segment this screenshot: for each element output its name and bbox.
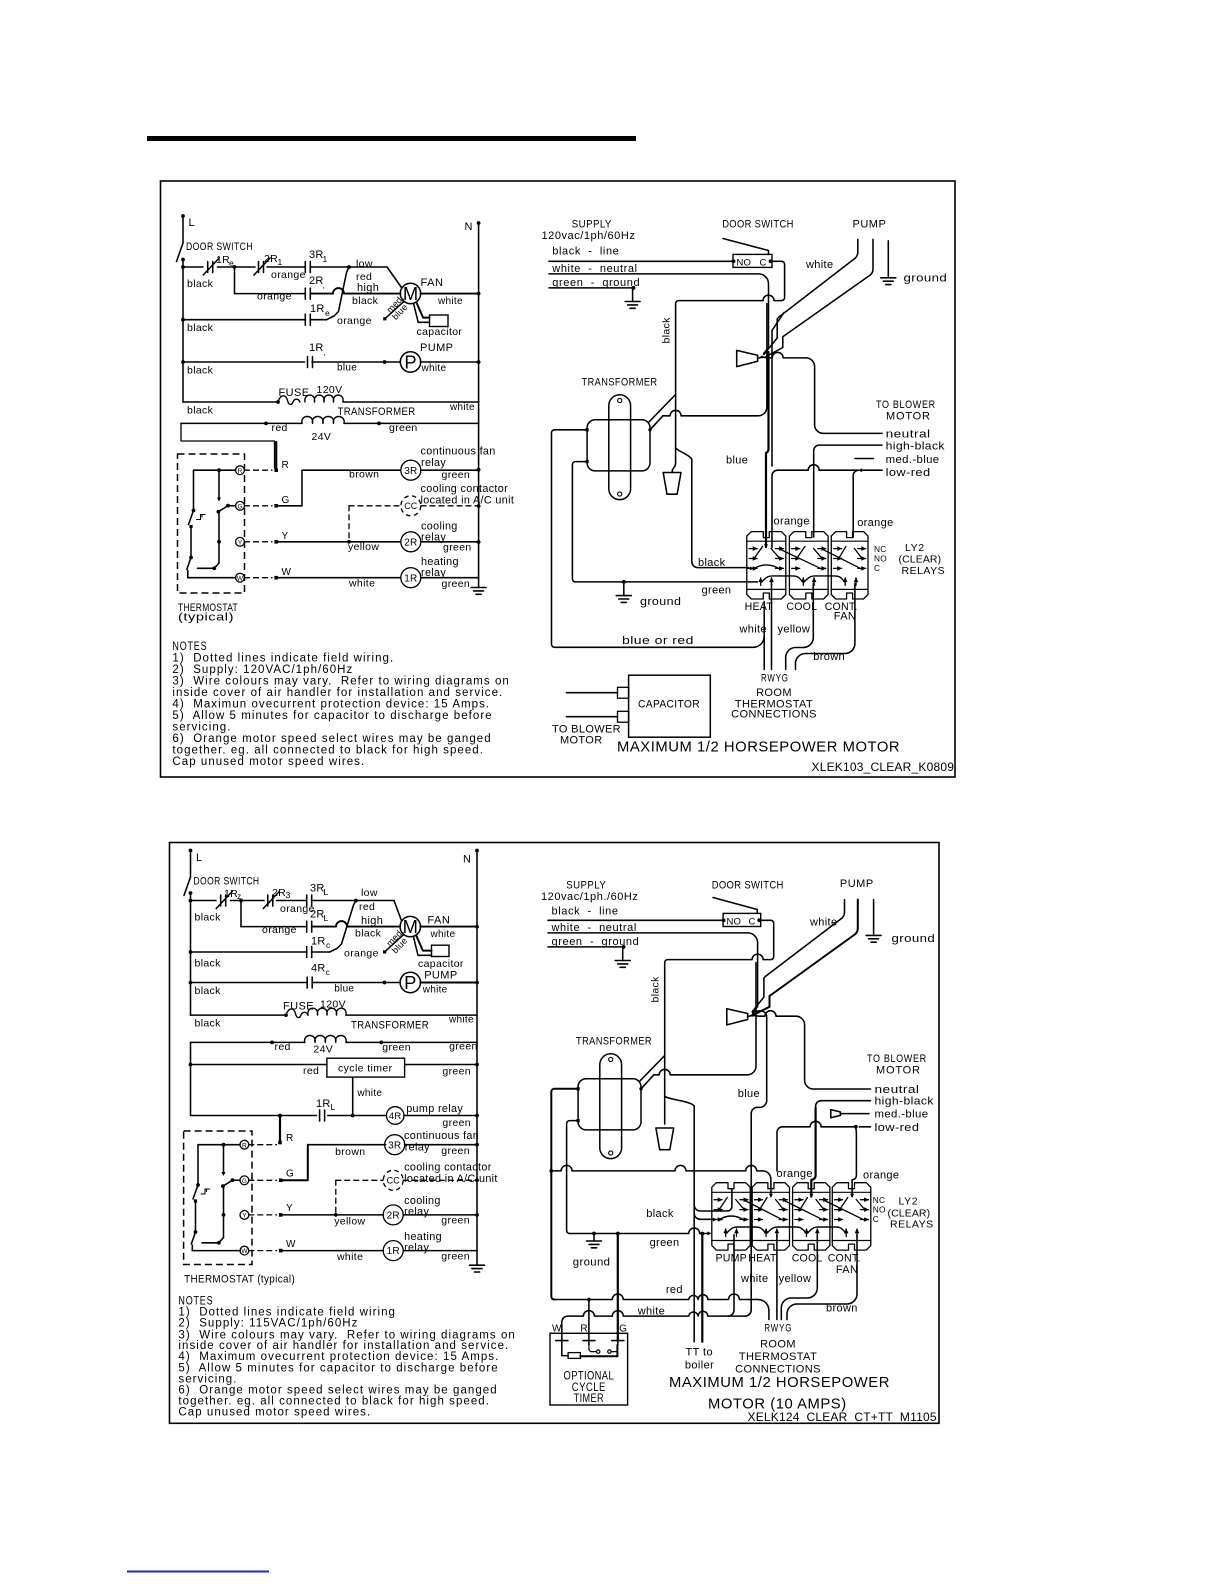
svg-text:brown: brown — [813, 651, 845, 663]
transformer primary diag top d1 — [649, 395, 675, 422]
contact 1Rz d2 — [220, 895, 222, 906]
fuse F1 — [278, 396, 300, 405]
relay HEAT arms — [755, 546, 763, 558]
svg-text:1R: 1R — [311, 936, 326, 948]
wire white row d2 — [562, 1316, 568, 1340]
svg-text:green - ground: green - ground — [552, 936, 640, 948]
transformer secondary coil 24V — [302, 417, 344, 424]
svg-text:4R: 4R — [389, 1111, 402, 1122]
wire 2R to rail d2 — [403, 1214, 477, 1216]
svg-text:MOTOR: MOTOR — [876, 1065, 921, 1077]
svg-text:LY2: LY2 — [899, 1195, 919, 1207]
relay cross wire — [825, 1201, 865, 1220]
fan med-blue lead d2 — [385, 935, 404, 952]
relay 2R d2 — [383, 1205, 403, 1225]
thermostat terminal W circle d2 — [240, 1246, 249, 1255]
wire RWYG Y d2 — [781, 1235, 817, 1320]
wire brown to 3R — [302, 469, 401, 471]
svg-text:CONT.: CONT. — [828, 1252, 861, 1264]
contact 4Rc d2 — [306, 977, 308, 988]
wire row5 d2 — [191, 1014, 287, 1016]
svg-text:white: white — [805, 259, 833, 271]
svg-text:white: white — [448, 1015, 474, 1026]
thermostat terminal R circle — [236, 466, 245, 475]
wire cycle to rail d2 — [405, 1064, 477, 1066]
svg-text:HEAT: HEAT — [745, 601, 774, 613]
svg-text:z: z — [237, 891, 241, 901]
wire row2 high — [234, 267, 236, 294]
wire med-blue trumpet d2 — [831, 1110, 841, 1118]
svg-text:white: white — [637, 1305, 665, 1317]
thermostat lead R dashed — [245, 469, 273, 471]
wire RWYG W d2 — [776, 1235, 778, 1320]
fan med-blue lead — [385, 302, 404, 319]
transformer T2 winding — [578, 1079, 641, 1130]
contact 1Rc d2 — [306, 947, 308, 958]
svg-text:Y: Y — [282, 531, 289, 542]
svg-text:together. eg. all connected to: together. eg. all connected to black for… — [172, 745, 484, 757]
svg-text:white: white — [356, 1088, 382, 1099]
svg-text:ground: ground — [573, 1257, 611, 1269]
contact 1Re — [207, 262, 209, 273]
24V drop rail d2 — [190, 1042, 192, 1115]
thermostat internal R bus — [194, 469, 236, 471]
svg-text:inside cover of air handler fo: inside cover of air handler for installa… — [172, 687, 503, 699]
pump wire 2 d2 — [753, 900, 858, 1016]
svg-text:black: black — [187, 322, 214, 334]
svg-text:green: green — [442, 1065, 471, 1077]
svg-text:med.-blue: med.-blue — [875, 1109, 929, 1121]
wire black to pump relay d2 — [665, 1096, 695, 1342]
svg-text:pump relay: pump relay — [406, 1103, 463, 1115]
relay CONT coil pins — [844, 578, 846, 586]
thermostat lead W dashed d2 — [249, 1250, 277, 1252]
thermostat terminal G circle d2 — [240, 1176, 249, 1185]
svg-text:orange: orange — [863, 1170, 899, 1182]
svg-text:TRANSFORMER: TRANSFORMER — [582, 377, 658, 389]
svg-text:L: L — [331, 1102, 336, 1112]
svg-text:1) Dotted lines indicate fiel: 1) Dotted lines indicate field wiring. — [172, 653, 394, 665]
svg-text:HEAT: HEAT — [748, 1252, 777, 1264]
svg-text:PUMP: PUMP — [716, 1252, 747, 1264]
svg-text:green: green — [441, 1145, 470, 1157]
relay CONT pins — [834, 548, 842, 550]
wire RWYG W d1 — [771, 584, 773, 670]
svg-text:e: e — [229, 258, 234, 268]
thermostat lead G dashed d2 — [249, 1179, 277, 1181]
svg-text:PUMP: PUMP — [853, 218, 887, 230]
wire neutral d1 — [762, 352, 882, 433]
svg-text:servicing.: servicing. — [172, 722, 231, 734]
svg-text:6) Orange motor speed select: 6) Orange motor speed select wires may b… — [172, 733, 491, 745]
svg-text:high: high — [361, 915, 383, 927]
svg-text:blue: blue — [726, 455, 748, 467]
transformer left lead top / blue-or-red d1 — [552, 430, 765, 648]
svg-text:relay: relay — [404, 1206, 429, 1218]
svg-text:green: green — [442, 578, 471, 590]
svg-text:yellow: yellow — [778, 624, 811, 636]
motor point junction d2 — [751, 1014, 754, 1017]
timer internals d2 — [561, 1345, 563, 1356]
svg-text:green: green — [389, 422, 418, 434]
wire RWYG Y d1 — [786, 584, 814, 670]
svg-text:high-black: high-black — [875, 1096, 934, 1108]
svg-text:R: R — [580, 1324, 588, 1335]
svg-text:C: C — [760, 257, 767, 268]
svg-text:N: N — [463, 854, 471, 866]
wire row1 low — [183, 266, 203, 268]
door switch box NO C d1 — [733, 254, 772, 267]
terminal Y d2 — [279, 1213, 283, 1217]
svg-text:green: green — [449, 1041, 478, 1053]
svg-text:red: red — [359, 901, 375, 913]
relay box HEAT — [747, 532, 786, 599]
svg-text:yellow: yellow — [334, 1215, 365, 1227]
fan capacitor — [430, 315, 449, 327]
svg-text:continuous fan: continuous fan — [404, 1130, 479, 1142]
thermostat box (typical) — [178, 454, 245, 593]
svg-text:G: G — [242, 1178, 247, 1185]
svg-text:brown: brown — [349, 469, 379, 481]
svg-text:brown: brown — [826, 1302, 858, 1314]
relay cross wire — [780, 549, 821, 568]
svg-text:white: white — [809, 917, 837, 929]
svg-text:RELAYS: RELAYS — [902, 565, 946, 577]
door switch box d2 — [723, 913, 761, 926]
motor PUMP P — [400, 352, 420, 372]
svg-text:5) Allow 5 minutes for capaci: 5) Allow 5 minutes for capacitor to disc… — [172, 710, 492, 722]
diagram 2 border — [170, 843, 940, 1424]
page title rule — [147, 136, 636, 141]
door switch lever d2 — [713, 898, 757, 914]
wire 24V to R drop — [181, 423, 275, 468]
svg-text:TO BLOWER: TO BLOWER — [867, 1053, 927, 1065]
svg-text:NOTES: NOTES — [172, 641, 207, 653]
svg-text:MAXIMUM 1/2 HORSEPOWER MOTOR: MAXIMUM 1/2 HORSEPOWER MOTOR — [617, 739, 900, 755]
relay box PUMP — [712, 1183, 750, 1250]
ground node d1 right — [623, 582, 625, 596]
wire low-red up branch d1 — [772, 313, 784, 467]
wire CC right dashed — [421, 505, 479, 507]
relay coil link wire — [727, 1227, 766, 1233]
svg-text:relay: relay — [405, 1141, 430, 1153]
svg-text:black: black — [698, 557, 726, 569]
svg-text:blue: blue — [738, 1088, 760, 1100]
right rail N — [478, 223, 480, 578]
transformer primary coil 120V — [305, 395, 343, 402]
svg-text:neutral: neutral — [886, 428, 931, 440]
svg-text:black: black — [355, 928, 382, 940]
svg-text:green: green — [442, 1117, 471, 1129]
svg-text:white: white — [422, 985, 448, 996]
svg-text:orange: orange — [337, 315, 372, 327]
svg-text:LY2: LY2 — [905, 542, 925, 554]
fan capacitor leads — [414, 303, 430, 322]
svg-text:white: white — [740, 1273, 768, 1285]
thermostat terminal W circle — [236, 573, 245, 582]
transformer left lead bottom / green d2 — [567, 1121, 579, 1234]
svg-text:Y: Y — [242, 1213, 247, 1220]
wire neutral d2 — [752, 1011, 871, 1089]
thermostat lead G dashed — [245, 505, 273, 507]
timer terminal G d2 — [612, 1340, 624, 1342]
relay COOL pins — [795, 1199, 803, 1201]
relay C-row jumper arc — [754, 565, 780, 569]
svg-text:2R: 2R — [310, 909, 325, 921]
optional cycle timer box d2 — [550, 1333, 628, 1405]
footer blue rule — [127, 1571, 269, 1573]
svg-text:W: W — [237, 575, 244, 582]
svg-text:PUMP: PUMP — [420, 342, 453, 354]
svg-text:cooling contactor: cooling contactor — [421, 483, 509, 495]
relay HEAT arms — [760, 1198, 767, 1210]
transformer left lead bottom / green d1 — [572, 462, 757, 582]
supply wire black d1 — [549, 260, 732, 262]
wire timer G drop d2 — [617, 1234, 619, 1341]
fuse d2 — [286, 1009, 308, 1018]
wire row4 d2 — [191, 982, 307, 984]
svg-text:relay: relay — [421, 457, 446, 469]
svg-text:black: black — [187, 278, 214, 290]
terminal W d2 — [279, 1249, 283, 1253]
wire high-black d2 — [816, 1101, 871, 1110]
relay HEAT pins — [749, 548, 757, 550]
relay CONT coil pins — [845, 1229, 847, 1237]
pump wire 2 d1 — [764, 239, 873, 357]
svg-text:black: black — [650, 976, 662, 1003]
relay box CONT — [832, 1183, 871, 1250]
pump ground d1 — [887, 241, 889, 277]
svg-text:white: white — [739, 623, 767, 635]
svg-text:2R: 2R — [387, 1211, 400, 1222]
contact 2R3 d2 — [267, 895, 269, 906]
svg-text:L: L — [196, 852, 203, 864]
svg-text:orange: orange — [857, 517, 893, 529]
wire 1R to rail d2 — [403, 1250, 477, 1252]
svg-text:2R: 2R — [272, 887, 286, 899]
svg-text:green: green — [382, 1042, 411, 1054]
relay CONT arms — [840, 1198, 848, 1210]
svg-text:black: black — [352, 295, 379, 307]
wire 3R to rail d2 — [405, 1144, 477, 1146]
svg-text:R: R — [286, 1133, 294, 1144]
svg-text:white: white — [348, 578, 375, 590]
svg-text:FAN: FAN — [421, 277, 444, 289]
svg-text:black: black — [646, 1208, 674, 1220]
svg-text:NO: NO — [727, 916, 742, 927]
transformer diag top d2 — [640, 1056, 665, 1081]
cycle timer box d2 — [327, 1058, 405, 1077]
svg-text:green: green — [650, 1237, 680, 1249]
supply wire white d2 — [548, 933, 758, 1013]
svg-text:black: black — [661, 317, 673, 344]
relay box COOL — [789, 532, 828, 599]
wire CC left dashed — [349, 505, 401, 507]
capacitor terminal 2 d1 — [618, 711, 629, 722]
terminal G d2 — [279, 1179, 283, 1183]
svg-text:3) Wire colours may vary. Re: 3) Wire colours may vary. Refer to wirin… — [172, 676, 509, 688]
relay coil link wire — [762, 576, 803, 582]
pump wire 1 d2 — [752, 900, 844, 1012]
svg-text:NO: NO — [873, 1204, 886, 1214]
svg-text:1R: 1R — [387, 1246, 400, 1257]
thermostat internal heat switch branch — [193, 470, 195, 510]
supply wire green d1 — [549, 287, 634, 289]
motor PUMP d2 — [400, 972, 420, 992]
relay 2R — [401, 532, 421, 552]
svg-text:relay: relay — [404, 1242, 429, 1254]
svg-text:120V: 120V — [317, 384, 343, 396]
svg-text:capacitor: capacitor — [417, 326, 463, 338]
svg-text:3R: 3R — [388, 1140, 401, 1151]
motor FAN d2 — [400, 916, 420, 936]
wire blue / white-motor vertical d2 — [751, 1011, 767, 1310]
svg-text:RELAYS: RELAYS — [890, 1218, 934, 1230]
svg-text:black - line: black - line — [552, 905, 619, 917]
relay coil link wire — [767, 1227, 806, 1233]
relay HEAT pins — [755, 1199, 763, 1201]
svg-text:green: green — [441, 1251, 470, 1263]
wire TT thick d2 — [701, 1234, 703, 1342]
thermostat box d2 — [184, 1131, 252, 1265]
svg-text:MOTOR: MOTOR — [560, 735, 603, 747]
wire brown to 3R d2 — [308, 1144, 386, 1146]
transformer T1 core — [609, 395, 631, 500]
thermostat terminal Y circle — [236, 537, 245, 546]
relay coil link wire — [808, 1227, 846, 1233]
svg-text:2R: 2R — [309, 275, 324, 287]
svg-text:low: low — [356, 258, 373, 270]
wire med-blue stub d1 — [855, 458, 874, 460]
svg-text:G: G — [237, 503, 242, 510]
relay box HEAT — [752, 1183, 789, 1250]
svg-text:black: black — [195, 958, 222, 970]
svg-text:CC: CC — [404, 501, 418, 511]
supply ground symbol d1 — [625, 301, 640, 303]
svg-text:ground: ground — [892, 933, 936, 945]
svg-text:DOOR SWITCH: DOOR SWITCH — [722, 218, 794, 230]
svg-text:1R: 1R — [309, 342, 324, 354]
relay PUMP arms — [720, 1198, 728, 1210]
svg-text:white: white — [336, 1251, 363, 1263]
svg-text:Y: Y — [238, 539, 243, 546]
svg-text:Y: Y — [286, 1203, 293, 1214]
svg-text:,: , — [324, 347, 326, 357]
wire W row d2 — [281, 1250, 384, 1252]
contactor CC dashed circle — [401, 496, 421, 516]
timer terminal R d2 — [583, 1340, 595, 1342]
wire CC right dashed d2 — [403, 1179, 477, 1181]
transformer left lead top / red feed d2 — [551, 1089, 578, 1300]
svg-text:blue or red: blue or red — [622, 635, 694, 647]
contact 1RL d2 — [319, 1110, 321, 1121]
wire W row — [276, 577, 400, 579]
wire row6 24V secondary — [181, 422, 302, 424]
svg-text:P: P — [404, 351, 416, 372]
svg-text:NO: NO — [737, 257, 752, 268]
wire RWYG G d2 — [787, 1235, 857, 1320]
svg-text:white: white — [449, 402, 475, 413]
thermostat lead Y dashed — [245, 541, 273, 543]
svg-text:CONNECTIONS: CONNECTIONS — [735, 1364, 821, 1376]
relay cross wire — [745, 1201, 783, 1220]
svg-text:XELK124_CLEAR_CT+TT_M1105: XELK124_CLEAR_CT+TT_M1105 — [748, 1410, 937, 1424]
wire row6 24V d2 — [191, 1041, 305, 1043]
transformer terminal dots d2 — [577, 1087, 580, 1090]
supply wire green d2 — [548, 946, 624, 948]
svg-text:low-red: low-red — [886, 467, 931, 479]
svg-text:C: C — [873, 1214, 879, 1224]
door switch S1 — [177, 243, 184, 262]
svg-text:SUPPLY: SUPPLY — [572, 218, 612, 230]
svg-text:green: green — [702, 585, 732, 597]
wire 1Re to node — [327, 267, 350, 320]
capacitor box d1 — [629, 675, 711, 737]
svg-text:G: G — [619, 1324, 627, 1335]
svg-text:CAPACITOR: CAPACITOR — [638, 699, 700, 711]
motor point junction d1 — [761, 356, 764, 359]
svg-text:NO: NO — [874, 553, 887, 563]
svg-text:RWYG: RWYG — [764, 1322, 792, 1334]
svg-text:24V: 24V — [312, 431, 332, 443]
svg-text:black: black — [195, 985, 222, 997]
supply ground d2 — [615, 960, 630, 962]
wire 2R to rail — [421, 541, 479, 543]
wire cycle timer row d2 — [191, 1064, 327, 1066]
contact 2R — [304, 288, 306, 299]
wire cycle timer white drop d2 — [352, 1077, 354, 1115]
svg-text:120vac/1ph./60Hz: 120vac/1ph./60Hz — [541, 891, 638, 903]
svg-text:4) Maximun ovecurrent protect: 4) Maximun ovecurrent protection device:… — [172, 699, 490, 711]
relay COOL arms — [797, 546, 805, 558]
svg-text:L: L — [189, 217, 196, 229]
node N — [477, 221, 481, 225]
svg-text:continuous fan: continuous fan — [421, 446, 496, 458]
svg-text:TRANSFORMER: TRANSFORMER — [338, 406, 416, 418]
wire Y row d2 — [281, 1214, 384, 1216]
svg-text:brown: brown — [335, 1146, 365, 1158]
capacitor terminal 1 d1 — [618, 687, 629, 698]
transformer T1 winding — [587, 420, 650, 471]
right rail d2 — [476, 851, 478, 1251]
relay HEAT coil pins — [760, 578, 762, 586]
svg-text:120vac/1ph/60Hz: 120vac/1ph/60Hz — [542, 230, 636, 242]
svg-text:orange: orange — [777, 1168, 813, 1180]
supply wire white d1 — [549, 274, 769, 354]
svg-text:cycle timer: cycle timer — [338, 1062, 393, 1074]
wire RWYG R d1 — [763, 602, 765, 670]
svg-text:NC: NC — [874, 544, 886, 554]
door switch lever d1 — [723, 239, 769, 255]
thermostat lead R dashed d2 — [249, 1144, 277, 1146]
svg-text:TO BLOWER: TO BLOWER — [876, 399, 936, 411]
contact 1R_e — [304, 314, 306, 325]
contact 2RL d2 — [306, 921, 308, 932]
svg-text:high-black: high-black — [886, 440, 945, 452]
wire door C loop d2 — [665, 920, 774, 1124]
thermostat terminal R circle d2 — [240, 1140, 249, 1149]
terminal R d2 — [278, 1141, 282, 1145]
fan capacitor d2 — [432, 945, 450, 956]
svg-text:high: high — [357, 282, 379, 294]
svg-text:CC: CC — [387, 1176, 401, 1186]
svg-text:red: red — [666, 1284, 683, 1296]
svg-text:low-red: low-red — [875, 1122, 920, 1134]
wire door C loop d1 — [672, 261, 784, 471]
svg-text:black: black — [195, 1018, 222, 1030]
wire row3 — [183, 319, 305, 321]
wire CC drop dashed d2 — [335, 1180, 337, 1215]
